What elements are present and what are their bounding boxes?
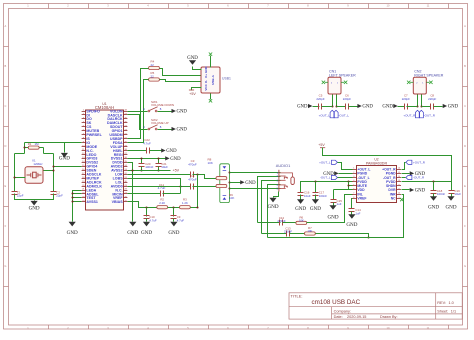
- svg-text:-OUT_R: -OUT_R: [413, 176, 425, 180]
- node -OUT_L flag: [334, 110, 338, 118]
- svg-text:A: A: [464, 24, 466, 28]
- capacitor C9: [173, 208, 175, 217]
- svg-text:100nF: 100nF: [319, 194, 327, 198]
- wire audio left to jack: [230, 172, 281, 174]
- capacitor C15: [349, 189, 353, 191]
- svg-text:10uF: 10uF: [304, 194, 311, 198]
- wire USB shield bottom: [210, 94, 212, 100]
- svg-text:-OUT_L: -OUT_L: [320, 176, 331, 180]
- ground C14: [348, 214, 355, 219]
- node -OUT_R flag: [419, 110, 423, 118]
- svg-text:GND: GND: [415, 189, 426, 194]
- ground near crystal top wire: [64, 143, 66, 153]
- svg-text:+OUT_R: +OUT_R: [403, 113, 416, 117]
- svg-text:D: D: [4, 144, 6, 148]
- capacitor C19: [451, 182, 453, 191]
- wire R5 to USB D-: [160, 80, 202, 82]
- capacitor C13: [262, 233, 287, 235]
- op-amp U1 CM108AH: [82, 102, 128, 210]
- capacitor C21: [158, 159, 160, 164]
- resistor R8: [212, 178, 217, 180]
- svg-text:22: 22: [151, 74, 155, 78]
- op-amp U2 PAM8403DR: [352, 158, 401, 203]
- svg-text:Sheet:: Sheet:: [437, 309, 448, 313]
- node -OUT_R flag: [402, 177, 406, 179]
- svg-text:Drawn By:: Drawn By:: [380, 315, 398, 319]
- wire USBDM to R4: [128, 69, 149, 139]
- svg-text:A: A: [5, 24, 7, 28]
- svg-text:VOLUME UP: VOLUME UP: [151, 121, 169, 125]
- svg-text:1uF: 1uF: [355, 211, 360, 215]
- wire U1 left ground bus: [73, 191, 82, 222]
- svg-text:GND: GND: [310, 206, 321, 212]
- svg-text:220nF: 220nF: [284, 230, 292, 234]
- svg-text:-OUT_R: -OUT_R: [424, 113, 436, 117]
- svg-text:+OUT_R: +OUT_R: [413, 161, 426, 165]
- svg-text:GND: GND: [170, 157, 181, 162]
- svg-text:10uF: 10uF: [454, 192, 461, 196]
- svg-text:GND: GND: [168, 230, 179, 236]
- ground R8 R9: [240, 180, 244, 184]
- resistor R3: [168, 207, 180, 209]
- resistor R7: [305, 232, 316, 235]
- capacitor C14: [352, 199, 353, 209]
- ground U2 SHDN: [402, 189, 410, 191]
- svg-text:1.2K: 1.2K: [182, 201, 188, 205]
- ground mid 1: [129, 222, 136, 227]
- wire R4 to USB D+: [160, 69, 202, 76]
- svg-text:+5V: +5V: [318, 143, 325, 147]
- capacitor C6: [337, 106, 346, 108]
- ground C19: [447, 196, 454, 201]
- svg-text:100nF: 100nF: [437, 192, 445, 196]
- ground U2 PGND right: [402, 173, 410, 175]
- svg-text:PAM8403DR: PAM8403DR: [366, 161, 388, 165]
- svg-text:C: C: [464, 104, 466, 108]
- wire jack ground: [274, 192, 279, 198]
- wire crystal caps to ground: [15, 194, 54, 200]
- svg-text:22: 22: [151, 63, 155, 67]
- svg-text:USB1: USB1: [222, 76, 231, 80]
- svg-text:GND: GND: [204, 65, 208, 73]
- svg-text:REV:: REV:: [437, 301, 446, 305]
- resistor R9: [212, 186, 217, 188]
- svg-text:22pF: 22pF: [17, 194, 24, 198]
- svg-text:Company:: Company:: [334, 309, 351, 313]
- capacitor C16: [298, 193, 304, 196]
- wire XO net to U1: [54, 166, 82, 168]
- svg-text:GND: GND: [187, 56, 198, 61]
- svg-text:220nF: 220nF: [277, 219, 285, 223]
- switch SW2: [128, 115, 172, 130]
- wire USB shield top: [210, 56, 212, 68]
- svg-text:AUDIO1: AUDIO1: [276, 163, 291, 168]
- capacitor C1: [12, 192, 18, 195]
- svg-text:4.7uF: 4.7uF: [177, 218, 185, 222]
- wire CN1 pins down: [332, 95, 334, 107]
- no-connect CN1 left: [325, 81, 328, 83]
- node +OUT_L flag: [330, 110, 334, 118]
- svg-text:GND: GND: [295, 206, 306, 212]
- capacitor C4: [128, 186, 191, 188]
- svg-text:GND: GND: [166, 149, 177, 154]
- ground SW2: [172, 127, 176, 131]
- resistor R2: [157, 206, 168, 209]
- wire jack sw2 down: [262, 181, 281, 234]
- svg-text:VOLUME DOWN: VOLUME DOWN: [151, 103, 174, 107]
- svg-text:1M: 1M: [34, 142, 39, 146]
- svg-text:GND: GND: [245, 181, 256, 186]
- svg-text:GND: GND: [445, 205, 456, 211]
- svg-text:+5V: +5V: [189, 92, 196, 96]
- capacitor C5: [313, 106, 320, 108]
- capacitor C7: [398, 106, 405, 108]
- ground CN2 right: [443, 104, 447, 108]
- wire jack sw3 down: [268, 185, 281, 238]
- svg-text:NC: NC: [391, 197, 396, 201]
- capacitor C2: [51, 192, 57, 195]
- svg-text:220pF: 220pF: [402, 97, 410, 101]
- crystal X1: [25, 167, 43, 183]
- svg-text:GND: GND: [428, 205, 439, 211]
- svg-text:GND: GND: [29, 205, 40, 211]
- wire to mid ground: [128, 163, 133, 222]
- svg-text:GND: GND: [67, 230, 78, 236]
- capacitor C22: [128, 150, 147, 152]
- svg-text:470uF: 470uF: [188, 163, 197, 167]
- svg-text:2.2K: 2.2K: [159, 201, 165, 205]
- capacitor C10: [146, 208, 148, 217]
- svg-text:4.7uF: 4.7uF: [158, 186, 166, 190]
- svg-text:GND: GND: [177, 110, 188, 115]
- no-connect CN1 right: [341, 81, 344, 83]
- wire AVDD decoupling top rail: [128, 158, 166, 160]
- connector CN1: [328, 70, 356, 94]
- svg-text:G: G: [464, 264, 466, 268]
- wire to audio gnd flag: [230, 182, 241, 184]
- svg-text:E: E: [5, 184, 7, 188]
- wire bottom INR net: [268, 195, 404, 238]
- wire R3 riser: [191, 175, 198, 208]
- svg-text:1/1: 1/1: [451, 309, 456, 313]
- svg-text:+OUT_L: +OUT_L: [319, 113, 331, 117]
- svg-text:220pF: 220pF: [316, 97, 324, 101]
- ground C17: [312, 199, 319, 204]
- ground U1 left: [69, 222, 76, 227]
- svg-text:10uF: 10uF: [161, 165, 168, 169]
- svg-text:B: B: [5, 64, 7, 68]
- svg-text:Date:: Date:: [334, 315, 343, 319]
- svg-text:C: C: [4, 104, 6, 108]
- connector AUDIO1: [276, 163, 295, 191]
- wire PVDD right rail: [402, 181, 452, 183]
- ground CN1 right: [357, 104, 361, 108]
- wire MUTE VDD column: [348, 182, 350, 190]
- wire +5V rail: [128, 170, 171, 172]
- switch SW1: [128, 100, 175, 112]
- svg-text:1uF: 1uF: [337, 202, 342, 206]
- capacitor C8: [422, 106, 431, 108]
- title block: [289, 293, 462, 319]
- resistor R6: [296, 221, 307, 224]
- svg-text:cm108 USB DAC: cm108 USB DAC: [312, 299, 361, 306]
- wire pin to R2 row: [128, 202, 157, 208]
- resistor R1: [24, 143, 26, 154]
- svg-text:D-: D-: [204, 80, 208, 83]
- no-connect CN2 right: [426, 81, 429, 83]
- wire crystal loop: [15, 153, 25, 155]
- svg-text:+5V: +5V: [172, 169, 179, 173]
- capacitor C11: [128, 193, 161, 195]
- svg-text:USB-A: USB-A: [211, 74, 215, 84]
- svg-text:VREF: VREF: [357, 197, 366, 201]
- capacitor C3: [128, 174, 191, 176]
- svg-text:B: B: [464, 64, 466, 68]
- wire audio right to jack: [230, 188, 281, 190]
- svg-text:GND: GND: [382, 105, 393, 110]
- wire XI net to U1: [25, 142, 82, 144]
- svg-text:1.0: 1.0: [449, 301, 454, 305]
- svg-text:470uF: 470uF: [188, 178, 197, 182]
- svg-text:TITLE:: TITLE:: [291, 294, 303, 299]
- capacitor C20: [141, 159, 143, 164]
- node loop bottom flag: [223, 197, 227, 200]
- node loop top flag: [223, 166, 227, 169]
- ground rail flag: [165, 156, 169, 160]
- svg-text:4.7uF: 4.7uF: [149, 218, 157, 222]
- connector USB1: [201, 67, 220, 93]
- svg-text:GND: GND: [127, 230, 138, 236]
- ground C16: [297, 199, 304, 204]
- node +OUT_R flag: [402, 163, 406, 170]
- wire R7 to bottom: [316, 234, 369, 238]
- capacitor C17: [315, 182, 317, 193]
- svg-text:12MHz: 12MHz: [33, 162, 43, 166]
- ground C9: [170, 222, 177, 227]
- svg-text:10K: 10K: [307, 229, 312, 233]
- svg-text:GND: GND: [59, 156, 70, 162]
- capacitor C12: [258, 222, 281, 224]
- svg-text:R1: R1: [28, 142, 32, 146]
- svg-text:VCC: VCC: [204, 83, 208, 90]
- svg-text:22pF: 22pF: [56, 194, 63, 198]
- svg-text:GND: GND: [327, 214, 338, 220]
- ground C22: [161, 148, 165, 152]
- svg-text:4.7uF: 4.7uF: [143, 142, 151, 146]
- svg-text:E: E: [464, 184, 466, 188]
- svg-text:G: G: [4, 264, 6, 268]
- svg-text:D: D: [464, 144, 466, 148]
- ground SW1: [172, 109, 176, 113]
- svg-text:10K: 10K: [299, 219, 304, 223]
- power flag +5V USB: [192, 88, 202, 91]
- svg-text:GND: GND: [448, 105, 459, 110]
- svg-text:2020-09-15: 2020-09-15: [347, 315, 366, 319]
- svg-text:GND: GND: [267, 204, 278, 210]
- svg-text:10K: 10K: [208, 161, 213, 165]
- svg-text:220pF: 220pF: [428, 97, 436, 101]
- ground C18: [430, 196, 437, 201]
- no-connect CN2 left: [410, 81, 413, 83]
- resistor R5: [149, 78, 160, 81]
- wire jack sw1 down: [258, 177, 281, 223]
- no-connect U2 NC: [400, 198, 403, 201]
- svg-text:VBIAS: VBIAS: [112, 200, 124, 204]
- node +OUT_R flag: [415, 110, 419, 118]
- connector CN2: [413, 70, 443, 94]
- ground C10: [143, 222, 150, 227]
- svg-text:GND: GND: [297, 105, 308, 110]
- svg-text:GND: GND: [362, 105, 373, 110]
- svg-text:+OUT_L: +OUT_L: [319, 161, 331, 165]
- svg-text:GND: GND: [346, 222, 357, 228]
- wire R6 to INL: [307, 195, 353, 223]
- wire R8 R9 loop: [220, 164, 230, 203]
- svg-text:D+: D+: [204, 74, 208, 78]
- ground USB: [193, 67, 202, 70]
- svg-text:10K: 10K: [229, 196, 234, 200]
- wire PVDD left rail: [301, 182, 353, 193]
- wire USBDP to R5: [128, 80, 149, 143]
- wire pin to C11 riser: [128, 179, 181, 194]
- resistor R4: [149, 66, 160, 69]
- svg-text:AVSS1: AVSS1: [86, 200, 98, 204]
- svg-text:GND: GND: [141, 230, 152, 236]
- ground crystal: [31, 201, 38, 206]
- svg-text:220pF: 220pF: [343, 97, 351, 101]
- svg-text:100nF: 100nF: [145, 165, 153, 169]
- ground AUDIO1: [269, 198, 276, 203]
- capacitor C18: [433, 182, 435, 191]
- ground C15: [329, 205, 336, 210]
- svg-text:-OUT_L: -OUT_L: [338, 113, 349, 117]
- wire CN2 pins down: [417, 95, 419, 107]
- svg-text:GND: GND: [177, 128, 188, 133]
